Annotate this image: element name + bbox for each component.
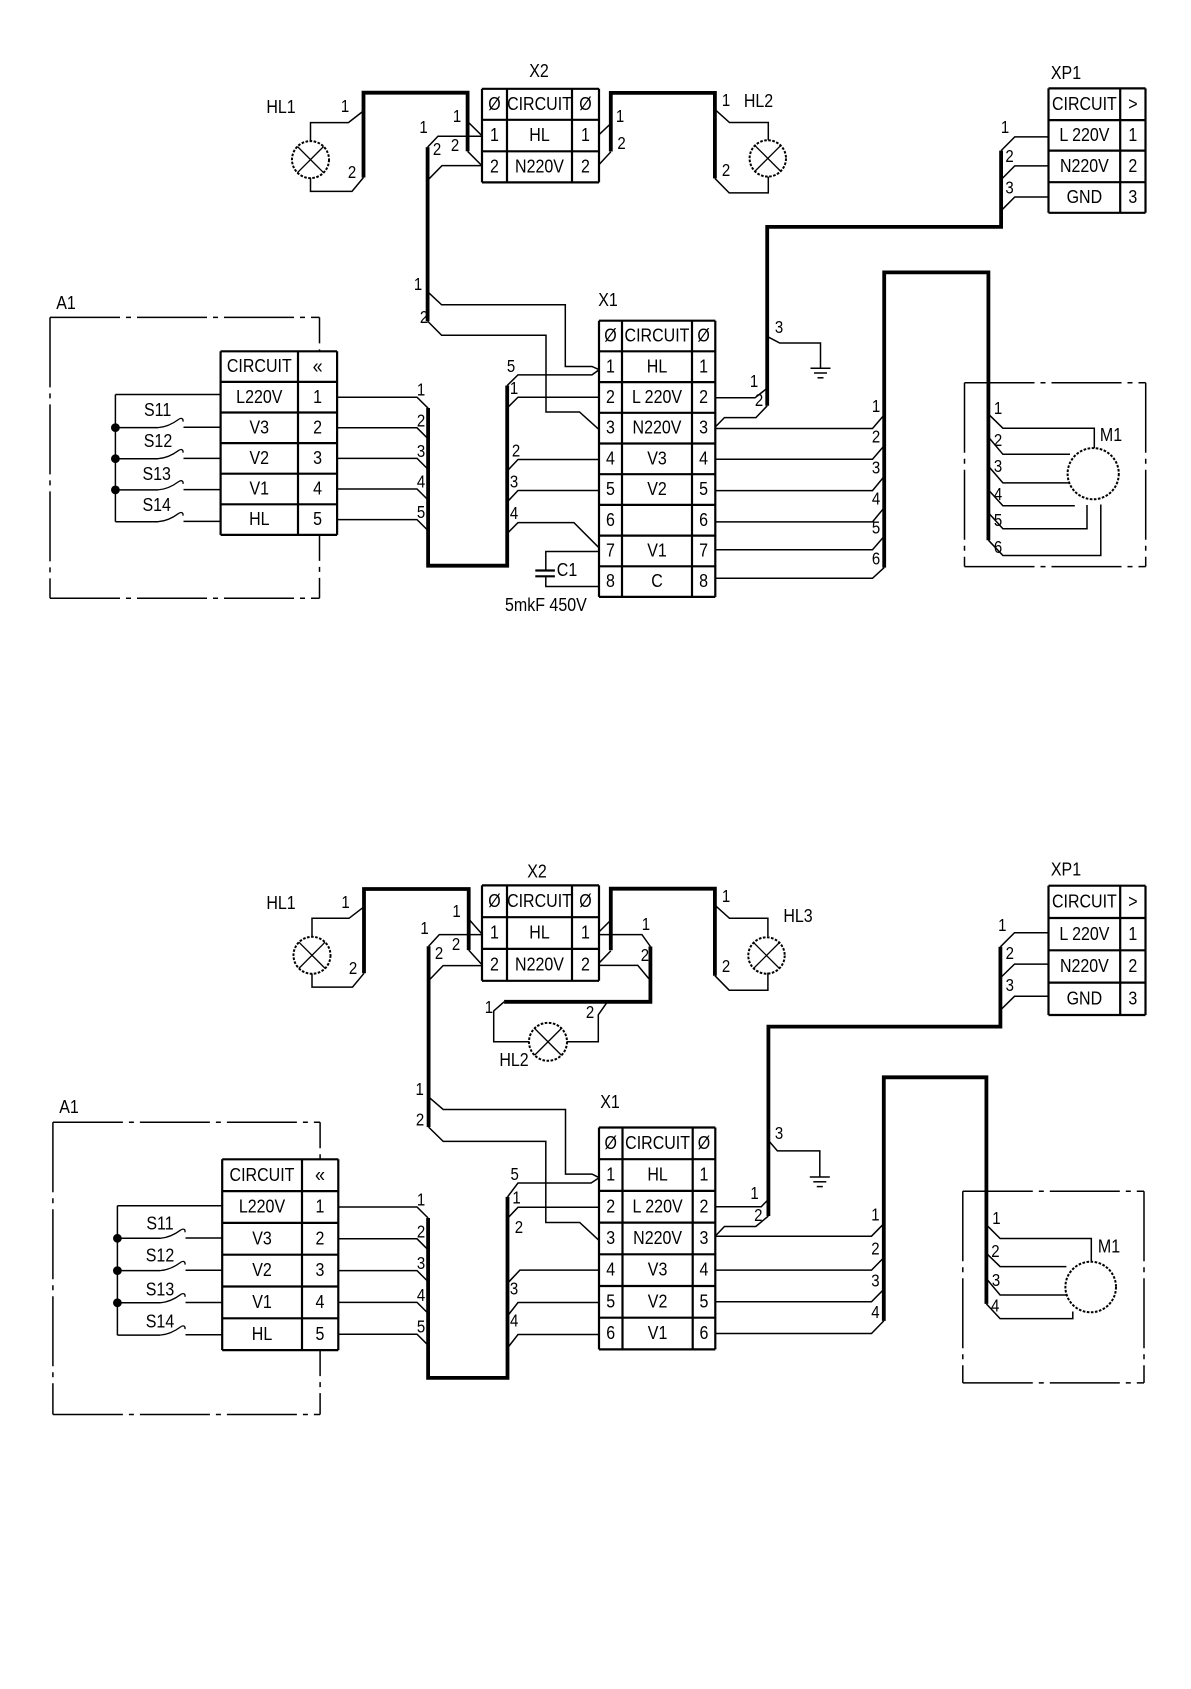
ground symbol (bottom) bbox=[810, 1177, 830, 1187]
svg-text:1: 1 bbox=[414, 275, 422, 294]
svg-text:3: 3 bbox=[775, 318, 783, 337]
svg-text:N220V: N220V bbox=[633, 417, 682, 438]
terminal block X1 (bottom) bbox=[599, 1091, 715, 1349]
A1 terminal table (bottom) bbox=[222, 1159, 338, 1350]
terminal block X2 (top) bbox=[482, 60, 599, 182]
harness XP1 to X1 (bottom) bbox=[768, 947, 1000, 1216]
svg-text:3: 3 bbox=[606, 417, 615, 438]
svg-text:3: 3 bbox=[775, 1124, 783, 1143]
svg-text:5: 5 bbox=[417, 503, 425, 522]
capacitor C1 bbox=[535, 552, 599, 587]
switch S14 (bottom) bbox=[117, 1310, 222, 1335]
svg-text:HL3: HL3 bbox=[783, 905, 812, 926]
switch S11 (top) bbox=[115, 399, 220, 428]
svg-text:V3: V3 bbox=[252, 1227, 272, 1248]
wire 2 harness to M1 (top) bbox=[988, 431, 1070, 454]
svg-text:2: 2 bbox=[316, 1227, 325, 1248]
switch S11 (bottom) bbox=[117, 1212, 222, 1238]
wire 1 harness to M1 (top) bbox=[988, 399, 1094, 448]
svg-text:5: 5 bbox=[872, 518, 880, 537]
harness X1 to M1 (bottom) bbox=[884, 1077, 987, 1321]
svg-text:V3: V3 bbox=[250, 416, 270, 437]
svg-text:1: 1 bbox=[416, 1080, 424, 1099]
svg-text:2: 2 bbox=[581, 155, 590, 176]
svg-text:V1: V1 bbox=[252, 1291, 272, 1312]
terminal block X2 (bottom) bbox=[482, 860, 599, 980]
svg-text:A1: A1 bbox=[59, 1096, 79, 1117]
wire 3 A1 pin to harness (bottom) bbox=[338, 1254, 428, 1281]
svg-text:M1: M1 bbox=[1098, 1235, 1120, 1256]
svg-text:HL1: HL1 bbox=[266, 96, 295, 117]
svg-text:M1: M1 bbox=[1100, 424, 1122, 445]
ground symbol (top) bbox=[811, 368, 831, 378]
harness HL1 to X2 (bottom) bbox=[364, 889, 469, 973]
svg-text:HL2: HL2 bbox=[744, 90, 773, 111]
wire 1 harness to X1 pin2 (bottom) bbox=[508, 1189, 599, 1219]
svg-text:1: 1 bbox=[642, 915, 650, 934]
wire XP1 pin 3 (bottom) bbox=[1000, 976, 1048, 1010]
svg-text:2: 2 bbox=[435, 944, 443, 963]
wire XP1 pin 1 (bottom) bbox=[998, 916, 1048, 947]
svg-text:«: « bbox=[313, 355, 323, 378]
svg-text:3: 3 bbox=[992, 1271, 1000, 1290]
svg-text:3: 3 bbox=[417, 442, 425, 461]
wire 6 X1 to M1 harness (top) bbox=[715, 550, 884, 579]
wire 5 X1 to M1 harness (top) bbox=[715, 518, 884, 549]
svg-text:2: 2 bbox=[755, 391, 763, 410]
svg-text:1: 1 bbox=[722, 91, 730, 110]
svg-text:S11: S11 bbox=[144, 399, 171, 420]
wire 1 XP1-harness to X1 pin2 (top) bbox=[715, 372, 767, 398]
svg-text:HL: HL bbox=[647, 355, 668, 376]
wire 2 X2 pin2 to harness (top) bbox=[429, 140, 482, 179]
harness X2 to X1 (bottom) bbox=[427, 946, 431, 1127]
svg-text:2: 2 bbox=[722, 161, 730, 180]
svg-text:2: 2 bbox=[991, 1242, 999, 1261]
svg-text:CIRCUIT: CIRCUIT bbox=[227, 355, 292, 376]
svg-text:HL: HL bbox=[252, 1323, 273, 1344]
svg-text:2: 2 bbox=[515, 1218, 523, 1237]
svg-text:N220V: N220V bbox=[515, 953, 564, 974]
svg-text:A1: A1 bbox=[56, 292, 76, 313]
wire 2 harness to X1 pin4 (top) bbox=[507, 442, 599, 471]
wire 3 to ground (top) bbox=[767, 318, 820, 368]
wire X2 pin1 right (top) bbox=[599, 107, 624, 135]
svg-text:3: 3 bbox=[994, 457, 1002, 476]
svg-text:2: 2 bbox=[452, 935, 460, 954]
svg-text:1: 1 bbox=[998, 916, 1006, 935]
svg-text:S13: S13 bbox=[142, 463, 170, 484]
harness HL1 to X2 (top) bbox=[364, 93, 468, 178]
wire X2 pin2 right (top) bbox=[599, 134, 626, 165]
wire HL1 pin 2 (top) bbox=[311, 163, 364, 191]
svg-text:HL1: HL1 bbox=[266, 892, 295, 913]
svg-text:V2: V2 bbox=[648, 1290, 668, 1311]
svg-text:1: 1 bbox=[606, 1164, 615, 1185]
svg-text:6: 6 bbox=[700, 1322, 709, 1343]
svg-text:1: 1 bbox=[453, 107, 461, 126]
wire 1 X2 pin1 to harness (top) bbox=[419, 118, 481, 147]
wire 4 X1 to M1 harness (top) bbox=[715, 490, 884, 522]
svg-text:6: 6 bbox=[606, 1322, 615, 1343]
switch S14 (top) bbox=[115, 494, 220, 522]
svg-text:5: 5 bbox=[313, 508, 322, 529]
svg-text:S12: S12 bbox=[146, 1244, 174, 1265]
wire 5 A1 pin to harness (top) bbox=[337, 503, 428, 530]
svg-text:2: 2 bbox=[722, 957, 730, 976]
lamp HL1 (top) bbox=[266, 96, 329, 178]
wire 2 X2 pin2 to harness (bottom) bbox=[430, 944, 482, 979]
device A1 dash-dot border (top) bbox=[50, 292, 320, 598]
svg-text:1: 1 bbox=[581, 124, 590, 145]
svg-text:«: « bbox=[315, 1163, 325, 1186]
svg-text:X2: X2 bbox=[529, 60, 549, 81]
svg-text:C: C bbox=[651, 570, 663, 591]
svg-text:CIRCUIT: CIRCUIT bbox=[507, 93, 572, 114]
svg-text:1: 1 bbox=[510, 379, 518, 398]
svg-text:XP1: XP1 bbox=[1051, 858, 1081, 879]
svg-text:5: 5 bbox=[994, 511, 1002, 530]
svg-text:1: 1 bbox=[313, 386, 322, 407]
wire 1 X2 pin1 to HL2 harness bbox=[599, 915, 651, 946]
svg-text:7: 7 bbox=[606, 539, 615, 560]
svg-text:2: 2 bbox=[313, 416, 322, 437]
svg-text:L220V: L220V bbox=[236, 386, 283, 407]
A1 terminal table (top) bbox=[221, 351, 338, 535]
harness X1 to M1 (top) bbox=[884, 272, 988, 567]
svg-text:Ø: Ø bbox=[604, 325, 616, 346]
svg-text:2: 2 bbox=[348, 163, 356, 182]
wire 3 A1 pin to harness (top) bbox=[337, 442, 428, 469]
svg-text:2: 2 bbox=[417, 1222, 425, 1241]
M1 dash-dot box (bottom) bbox=[963, 1191, 1144, 1383]
switch common bus (top) bbox=[115, 395, 220, 522]
svg-text:2: 2 bbox=[433, 140, 441, 159]
svg-text:S13: S13 bbox=[146, 1278, 174, 1299]
svg-text:4: 4 bbox=[699, 447, 708, 468]
svg-text:V1: V1 bbox=[648, 1322, 668, 1343]
junction dots (top) bbox=[111, 423, 120, 494]
lamp HL3 (bottom) bbox=[748, 905, 812, 974]
svg-text:S14: S14 bbox=[146, 1310, 175, 1331]
svg-text:1: 1 bbox=[699, 355, 708, 376]
harness XP1 to X1 (top) bbox=[767, 151, 1001, 406]
svg-text:4: 4 bbox=[994, 485, 1002, 504]
svg-text:1: 1 bbox=[512, 1189, 520, 1208]
svg-text:N220V: N220V bbox=[515, 155, 564, 176]
svg-text:S14: S14 bbox=[142, 494, 171, 515]
switch S12 (top) bbox=[115, 430, 220, 459]
svg-text:4: 4 bbox=[510, 504, 518, 523]
svg-text:3: 3 bbox=[700, 1227, 709, 1248]
svg-text:HL: HL bbox=[529, 922, 550, 943]
wire 5 harness to M1 (top) bbox=[988, 505, 1087, 530]
svg-text:4: 4 bbox=[871, 1303, 879, 1322]
svg-text:V3: V3 bbox=[647, 447, 667, 468]
svg-text:GND: GND bbox=[1067, 186, 1103, 207]
svg-text:2: 2 bbox=[754, 1206, 762, 1225]
wire HL1 pin 1 (top) bbox=[311, 97, 364, 141]
svg-text:5: 5 bbox=[700, 1290, 709, 1311]
svg-text:1: 1 bbox=[871, 1206, 879, 1225]
svg-text:2: 2 bbox=[420, 308, 428, 327]
svg-text:2: 2 bbox=[586, 1003, 594, 1022]
wire HL1 pin 1 (bottom) bbox=[312, 893, 364, 937]
wire HL2 pin 1 (top) bbox=[715, 91, 768, 140]
wire 1 harness to X1 pin1 (top) bbox=[414, 275, 599, 370]
wire XP1 pin 1 (top) bbox=[1001, 118, 1049, 151]
wire 4 harness to M1 (top) bbox=[988, 485, 1074, 506]
svg-text:3: 3 bbox=[1005, 179, 1013, 198]
svg-text:3: 3 bbox=[417, 1254, 425, 1273]
wire 2 harness to X1 pin4 (bottom) bbox=[508, 1218, 599, 1283]
svg-text:Ø: Ø bbox=[579, 93, 591, 114]
svg-text:2: 2 bbox=[699, 386, 708, 407]
wire 1 X1 to M1 harness (bottom) bbox=[715, 1206, 883, 1236]
wire to X2 pin 2 left (bottom) bbox=[452, 935, 481, 964]
svg-text:N220V: N220V bbox=[633, 1227, 682, 1248]
svg-text:2: 2 bbox=[606, 386, 615, 407]
svg-text:HL: HL bbox=[249, 508, 270, 529]
svg-text:6: 6 bbox=[606, 509, 615, 530]
svg-text:1: 1 bbox=[485, 998, 493, 1017]
svg-text:4: 4 bbox=[991, 1297, 999, 1316]
svg-text:L220V: L220V bbox=[239, 1196, 286, 1217]
wire 6 harness to M1 (top) bbox=[988, 505, 1100, 558]
switch S12 (bottom) bbox=[117, 1244, 222, 1270]
harness X2 to X1 (top) bbox=[426, 147, 430, 321]
svg-text:3: 3 bbox=[871, 1271, 879, 1290]
motor M1 (bottom) bbox=[1065, 1235, 1120, 1312]
harness A1 to X1 (top) bbox=[428, 386, 507, 566]
wire 2 X1 to M1 harness (bottom) bbox=[715, 1240, 883, 1270]
svg-text:1: 1 bbox=[994, 399, 1002, 418]
wire HL2 pin 2 (top) bbox=[715, 161, 768, 193]
wire 2 XP1-harness to X1 pin3 (top) bbox=[715, 391, 767, 427]
svg-text:6: 6 bbox=[872, 550, 880, 569]
svg-text:1: 1 bbox=[581, 922, 590, 943]
junction dots (bottom) bbox=[113, 1234, 122, 1307]
svg-text:3: 3 bbox=[510, 1280, 518, 1299]
switch S13 (top) bbox=[115, 463, 220, 490]
svg-text:2: 2 bbox=[1005, 147, 1013, 166]
svg-text:1: 1 bbox=[420, 919, 428, 938]
switch common bus (bottom) bbox=[117, 1206, 222, 1335]
connector XP1 (bottom) bbox=[1049, 858, 1146, 1015]
C1 value label bbox=[505, 594, 587, 615]
svg-text:V1: V1 bbox=[250, 478, 270, 499]
svg-text:2: 2 bbox=[417, 411, 425, 430]
svg-text:1: 1 bbox=[316, 1196, 325, 1217]
wire 2 A1 pin to harness (bottom) bbox=[338, 1222, 428, 1249]
svg-text:L 220V: L 220V bbox=[1059, 923, 1110, 944]
wire XP1 pin 2 (bottom) bbox=[1000, 944, 1048, 978]
svg-text:2: 2 bbox=[349, 959, 357, 978]
svg-text:V1: V1 bbox=[647, 539, 667, 560]
svg-text:V3: V3 bbox=[648, 1259, 668, 1280]
wire 2 X2 pin2 to HL2 harness bbox=[599, 946, 649, 979]
svg-text:5: 5 bbox=[606, 478, 615, 499]
wire 1 A1 pin to harness (top) bbox=[337, 381, 428, 408]
wire X2 pin1 right (bottom) bbox=[599, 920, 611, 932]
svg-text:1: 1 bbox=[419, 118, 427, 137]
svg-text:3: 3 bbox=[510, 473, 518, 492]
harness X2 to HL2 (bottom) bbox=[504, 947, 650, 1002]
wire to X2 pin 1 left (bottom) bbox=[452, 902, 481, 934]
svg-text:1: 1 bbox=[722, 887, 730, 906]
wire 4 harness to X1 pin6 (bottom) bbox=[508, 1312, 599, 1348]
lamp HL1 (bottom) bbox=[266, 892, 330, 974]
svg-text:HL: HL bbox=[647, 1164, 668, 1185]
svg-text:2: 2 bbox=[416, 1111, 424, 1130]
svg-text:3: 3 bbox=[606, 1227, 615, 1248]
svg-text:CIRCUIT: CIRCUIT bbox=[1052, 93, 1117, 114]
wire 2 X1 to M1 harness (top) bbox=[715, 428, 884, 460]
wire 5 harness to X1 pin1 (bottom) bbox=[508, 1165, 599, 1197]
wire 3 harness to M1 (bottom) bbox=[986, 1271, 1066, 1295]
svg-text:5: 5 bbox=[606, 1290, 615, 1311]
wire 3 harness to M1 (top) bbox=[988, 457, 1069, 483]
terminal block X1 (top) bbox=[598, 289, 715, 597]
svg-text:S11: S11 bbox=[146, 1212, 173, 1233]
connector XP1 (top) bbox=[1049, 62, 1146, 213]
wire 3 to ground (bottom) bbox=[768, 1124, 819, 1177]
svg-text:L 220V: L 220V bbox=[1059, 124, 1110, 145]
svg-text:5: 5 bbox=[699, 478, 708, 499]
wire HL3 pin 1 bbox=[715, 887, 768, 936]
svg-text:>: > bbox=[1128, 890, 1137, 911]
wire 2 A1 pin to harness (top) bbox=[337, 411, 428, 438]
wire 3 harness to X1 pin5 (top) bbox=[507, 473, 599, 502]
svg-text:5: 5 bbox=[507, 357, 515, 376]
svg-text:2: 2 bbox=[1128, 955, 1137, 976]
svg-text:2: 2 bbox=[641, 946, 649, 965]
svg-text:1: 1 bbox=[341, 97, 349, 116]
svg-text:2: 2 bbox=[512, 442, 520, 461]
svg-text:XP1: XP1 bbox=[1051, 62, 1081, 83]
svg-text:6: 6 bbox=[699, 509, 708, 530]
wire 4 harness to X1 pin7 (top) bbox=[507, 504, 599, 548]
svg-text:3: 3 bbox=[872, 458, 880, 477]
svg-text:2: 2 bbox=[1006, 944, 1014, 963]
svg-text:V2: V2 bbox=[647, 478, 667, 499]
svg-text:X2: X2 bbox=[527, 860, 547, 881]
harness A1 to X1 (bottom) bbox=[428, 1197, 507, 1378]
svg-text:4: 4 bbox=[417, 1286, 425, 1305]
svg-text:2: 2 bbox=[490, 155, 499, 176]
svg-text:Ø: Ø bbox=[698, 1132, 710, 1153]
wire 1 A1 pin to harness (bottom) bbox=[338, 1191, 428, 1218]
svg-text:3: 3 bbox=[1128, 186, 1137, 207]
svg-text:1: 1 bbox=[872, 397, 880, 416]
svg-text:C1: C1 bbox=[557, 559, 577, 580]
lamp HL2 (top) bbox=[744, 90, 786, 177]
svg-text:X1: X1 bbox=[600, 1091, 620, 1112]
svg-text:V2: V2 bbox=[250, 447, 270, 468]
svg-text:2: 2 bbox=[872, 428, 880, 447]
wire 2 XP1-harness to X1 pin3 (bottom) bbox=[715, 1206, 768, 1236]
svg-text:1: 1 bbox=[750, 1184, 758, 1203]
svg-text:Ø: Ø bbox=[697, 325, 709, 346]
svg-text:S12: S12 bbox=[144, 430, 172, 451]
svg-text:L 220V: L 220V bbox=[633, 1195, 684, 1216]
wire HL1 pin 2 (bottom) bbox=[312, 959, 364, 987]
device A1 dash-dot border (bottom) bbox=[53, 1096, 320, 1415]
wire 1 harness to M1 (bottom) bbox=[986, 1209, 1091, 1262]
wire 4 A1 pin to harness (bottom) bbox=[338, 1286, 428, 1313]
switch S13 (bottom) bbox=[117, 1278, 222, 1302]
svg-text:>: > bbox=[1128, 93, 1137, 114]
wire 5 harness to X1 pin1 (top) bbox=[507, 357, 599, 385]
svg-text:CIRCUIT: CIRCUIT bbox=[230, 1164, 295, 1185]
svg-text:Ø: Ø bbox=[488, 93, 500, 114]
svg-text:1: 1 bbox=[452, 902, 460, 921]
svg-text:GND: GND bbox=[1067, 987, 1103, 1008]
svg-text:2: 2 bbox=[581, 953, 590, 974]
wire X2 pin2 right (bottom) bbox=[599, 951, 611, 963]
svg-text:CIRCUIT: CIRCUIT bbox=[1052, 890, 1117, 911]
svg-text:5: 5 bbox=[417, 1318, 425, 1337]
svg-text:1: 1 bbox=[490, 922, 499, 943]
svg-text:HL: HL bbox=[529, 124, 550, 145]
svg-text:2: 2 bbox=[606, 1195, 615, 1216]
wire 1 X1 to M1 harness (top) bbox=[715, 397, 884, 429]
svg-text:1: 1 bbox=[992, 1209, 1000, 1228]
svg-text:4: 4 bbox=[510, 1312, 518, 1331]
svg-text:N220V: N220V bbox=[1060, 955, 1109, 976]
svg-text:1: 1 bbox=[1001, 118, 1009, 137]
svg-text:4: 4 bbox=[417, 473, 425, 492]
svg-text:1: 1 bbox=[606, 355, 615, 376]
svg-text:2: 2 bbox=[617, 134, 625, 153]
svg-text:7: 7 bbox=[699, 539, 708, 560]
wire 2 harness to X1 pin3 (bottom) bbox=[416, 1111, 599, 1241]
wire to X2 pin 1 left (top) bbox=[453, 107, 482, 135]
svg-text:2: 2 bbox=[700, 1195, 709, 1216]
svg-text:5: 5 bbox=[316, 1323, 325, 1344]
wire 4 harness to M1 (bottom) bbox=[986, 1297, 1072, 1319]
motor M1 (top) bbox=[1068, 424, 1123, 499]
wire HL2 pin 2 (bottom) bbox=[567, 1002, 607, 1042]
svg-text:1: 1 bbox=[750, 372, 758, 391]
svg-text:2: 2 bbox=[994, 431, 1002, 450]
svg-text:2: 2 bbox=[1128, 155, 1137, 176]
svg-text:1: 1 bbox=[490, 124, 499, 145]
svg-text:4: 4 bbox=[872, 490, 880, 509]
svg-text:4: 4 bbox=[606, 447, 615, 468]
svg-text:5mkF 450V: 5mkF 450V bbox=[505, 594, 587, 615]
svg-text:HL2: HL2 bbox=[499, 1049, 528, 1070]
wire 2 harness to M1 (bottom) bbox=[986, 1242, 1066, 1267]
svg-text:1: 1 bbox=[341, 893, 349, 912]
svg-text:1: 1 bbox=[1128, 124, 1137, 145]
wire HL3 pin 2 bbox=[715, 957, 768, 990]
svg-text:N220V: N220V bbox=[1060, 155, 1109, 176]
svg-text:1: 1 bbox=[616, 107, 624, 126]
harness X2 to HL3 (bottom) bbox=[611, 889, 715, 976]
svg-text:1: 1 bbox=[417, 1191, 425, 1210]
wire 1 harness to X1 pin2 (top) bbox=[507, 379, 599, 408]
svg-text:1: 1 bbox=[700, 1164, 709, 1185]
wire 4 X1 to M1 harness (bottom) bbox=[715, 1303, 883, 1334]
svg-text:3: 3 bbox=[699, 417, 708, 438]
svg-text:4: 4 bbox=[316, 1291, 325, 1312]
svg-text:8: 8 bbox=[606, 570, 615, 591]
wire 2 harness to X1 pin3 (top) bbox=[420, 308, 599, 429]
svg-text:Ø: Ø bbox=[604, 1132, 616, 1153]
wire 3 X1 to M1 harness (bottom) bbox=[715, 1271, 883, 1301]
wire 1 XP1-harness to X1 pin2 (bottom) bbox=[715, 1184, 768, 1207]
